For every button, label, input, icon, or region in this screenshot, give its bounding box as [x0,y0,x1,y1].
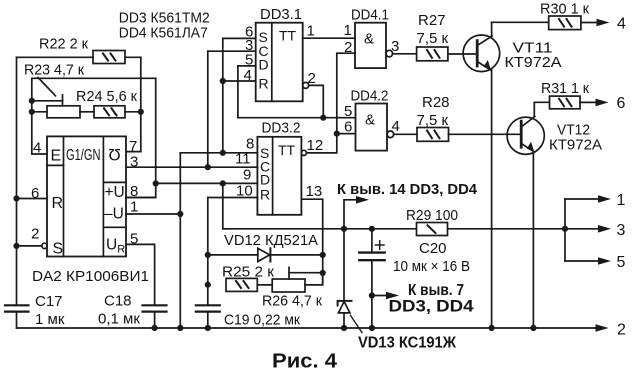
resistor R29 [417,223,448,236]
wiper tick [62,95,64,106]
svg-text:–U: –U [104,206,124,223]
output arrow 4 [597,19,610,27]
svg-text:Ω: Ω [108,145,120,163]
svg-text:6: 6 [344,119,352,136]
wire DD3.1 pin6 S from ground vertical [223,37,256,39]
svg-text:D: D [260,172,270,188]
svg-text:3: 3 [617,222,626,239]
flip-flop DD3.1 [256,23,303,102]
svg-text:S: S [53,241,64,258]
node R25 junction [205,282,211,288]
svg-text:R24 5,6 к: R24 5,6 к [76,88,137,105]
node junction with S-line of DD3.2 [220,150,226,156]
svg-text:DD4.1: DD4.1 [351,7,389,24]
node pin6 junction on left rail [13,195,19,201]
node C20 ground junction [369,325,375,331]
wire set/reset ground vertical (upper) [222,38,224,153]
svg-text:7,5 к: 7,5 к [417,112,449,129]
svg-text:R28: R28 [422,94,450,111]
diode VD12 [208,248,323,261]
svg-text:1 мк: 1 мк [35,311,65,328]
svg-text:1: 1 [344,22,352,39]
node output branch junction [562,226,568,232]
svg-text:VD12 КД521А: VD12 КД521А [224,232,318,249]
svg-text:9: 9 [243,167,251,184]
node D-line junction with +rail vertical [220,180,226,186]
output arrow 2 [596,324,609,332]
svg-text:&: & [364,31,374,48]
svg-text:C19 0,22 мк: C19 0,22 мк [224,312,300,329]
svg-text:R: R [259,76,269,92]
node pin14 branch junction [341,226,347,232]
svg-text:R26 4,7 к: R26 4,7 к [262,293,322,310]
wire wiper to left vertical [32,100,63,102]
capacitor C17 [5,305,29,328]
wire DD3.2 pin8 S line from -U [180,152,257,154]
svg-text:12: 12 [307,137,324,154]
wire DD3.1 pin2 Q-bar [303,82,324,117]
wire DD3.1 pin4 R [223,80,256,82]
svg-text:D: D [259,57,269,73]
svg-text:C18: C18 [104,293,132,310]
svg-text:5: 5 [344,103,352,120]
svg-text:UR: UR [106,237,125,256]
wire DD3.1 pin3 C from DA2 output [208,50,256,52]
wiper arrow diagonal [38,78,56,96]
svg-text:2: 2 [617,322,626,339]
svg-text:6: 6 [31,185,39,202]
svg-text:1: 1 [130,199,138,216]
pin 3 wire (DA2 output line) [126,166,257,168]
svg-text:10: 10 [236,183,253,200]
resistor R25 [226,278,272,291]
svg-text:3: 3 [130,154,138,171]
svg-text:R29 100: R29 100 [406,207,458,224]
wire VT12 collector to R31 [534,101,549,103]
resistor R23 (trimmer) [32,78,94,118]
pin 7 wire [126,151,141,153]
svg-text:ТТ: ТТ [279,28,297,44]
node -U ground junction [177,325,183,331]
wire DD3.1 pin5 D feedback [238,65,256,67]
wire DD3.2 pin13 output [301,199,322,285]
svg-text:DD4 К561ЛА7: DD4 К561ЛА7 [119,25,208,42]
svg-text:DD3.1: DD3.1 [260,6,302,23]
svg-text:E: E [51,148,62,165]
capacitor C19 [196,305,220,328]
wire DD4.2 pin6 entry [337,133,356,135]
pin 5 wire (UR) to C18 [126,244,155,305]
wire output 1 [565,198,599,200]
svg-text:DD3, DD4: DD3, DD4 [389,297,475,316]
wire arrow to pin14 power [344,196,369,229]
output arrow 5 [598,257,611,265]
flip-flop DD3.2 [257,137,301,215]
svg-text:5: 5 [245,52,253,69]
svg-text:13: 13 [306,183,323,200]
svg-text:7: 7 [129,138,137,155]
wire +rail vertical (lower segment) to main line [223,183,229,228]
resistor R31 [550,96,597,109]
node pin12/pin6 junction [334,131,340,137]
svg-text:7,5 к: 7,5 к [417,30,449,47]
svg-text:5: 5 [617,254,626,271]
resistor R24 [94,106,141,118]
wire R24 right lead [125,111,141,113]
svg-text:1: 1 [307,23,315,40]
transistor VT12 [507,102,544,328]
capacitor C18 [143,305,167,328]
svg-text:0,1 мк: 0,1 мк [98,311,140,328]
pin 1 wire (-U) [126,213,180,215]
node junction R24-right on vertical [138,109,144,115]
svg-text:DA2 КР1006ВИ1: DA2 КР1006ВИ1 [32,268,149,285]
node VD13 ground junction [341,325,347,331]
node VD12 cathode junction [320,252,326,258]
wire DD3.1 pin1 Q to DD4.1 [303,37,355,39]
svg-text:R: R [52,195,64,212]
wire DD3.2 R net vertical to VD12/C19 [207,198,209,306]
wire +rail main line to outputs [223,228,599,230]
node C20 bottom junction [369,292,375,298]
wire arrow to pin7 ground [372,292,399,300]
svg-text:DD3.2: DD3.2 [262,120,301,137]
svg-text:ТТ: ТТ [278,142,296,158]
capacitor C20 electrolytic [359,229,384,296]
svg-text:4: 4 [392,118,400,135]
gate DD4.1 [355,23,393,68]
wire -U ground vertical [179,153,181,328]
svg-text:5: 5 [130,231,138,248]
node VD12 anode junction [205,252,211,258]
svg-text:4: 4 [244,67,252,84]
output arrow 6 [596,99,609,107]
resistor R22 [17,51,141,64]
node VT12 emitter ground junction [530,325,536,331]
wire R23-R24 link [80,111,94,113]
node pin2 junction on left rail [13,243,19,249]
svg-text:КТ972А: КТ972А [549,137,602,154]
svg-text:11: 11 [235,151,251,168]
svg-text:+U: +U [105,184,125,201]
svg-text:G1/GN: G1/GN [66,147,101,164]
wire left rail (R,S,C17) [16,57,18,305]
svg-text:3: 3 [391,38,399,55]
wire output branch vertical [564,199,566,261]
wire E-net left vertical down to pin 4 [32,78,47,154]
op-amp DA2 timer block [47,136,126,256]
wire DA2 pin3 vertical to DD3.1 C [207,51,209,167]
svg-text:2: 2 [344,39,352,56]
node DA2 output junction [205,164,211,170]
svg-text:C17: C17 [35,293,63,310]
svg-text:DD4.2: DD4.2 [351,88,389,105]
wire DD4.1 output to R27 [393,53,417,55]
svg-text:VD13 КС191Ж: VD13 КС191Ж [358,335,456,352]
wire vertical R22/R24 to DA2 pin7 [140,57,142,151]
svg-text:1: 1 [617,192,626,209]
svg-text:К выв. 14 DD3, DD4: К выв. 14 DD3, DD4 [337,181,478,198]
gate DD4.2 [356,104,394,151]
svg-text:R25 2 к: R25 2 к [222,264,274,281]
svg-text:КТ972А: КТ972А [505,54,562,71]
node DD3.1 R junction [220,78,226,84]
output arrow 3 [598,225,611,233]
wire DD3.2 pin9 D line (+U) [156,182,258,184]
wire output 5 [565,260,599,262]
node R23 wiper junction [29,98,35,104]
wire DD3.2 pin12 output [301,53,355,155]
node R23 left junction [29,109,35,115]
resistor R30 [549,16,598,30]
svg-text:Рис. 4: Рис. 4 [272,350,338,373]
wire R23 left lead [32,111,47,113]
node pin2 feedback junction [320,115,326,121]
pin 6 wire into R [17,198,48,200]
wire E-net top horizontal to +U vertical [32,77,156,79]
wire C20 bottom to ground rail [371,296,373,329]
resistor R27 [417,47,478,61]
pin 2 wire into S with inversion circle [17,243,48,248]
svg-text:C20: C20 [419,240,447,257]
output arrow 1 [598,195,611,203]
svg-text:6: 6 [617,95,626,112]
wire ground bottom rail [17,327,597,329]
svg-text:R23 4,7 к: R23 4,7 к [24,62,84,79]
wire R22 right lead to vertical [125,56,141,58]
svg-text:R31 1 к: R31 1 к [541,80,589,97]
svg-text:R22 2 к: R22 2 к [39,36,88,53]
wire +U net vertical [126,78,156,197]
svg-text:8: 8 [130,183,138,200]
svg-text:4: 4 [617,16,626,33]
svg-text:&: & [365,112,375,129]
transistor VT11 [463,22,500,328]
node VT11 emitter ground junction [489,325,495,331]
wire DD3.1 D feedback vertical and line to DD4.2 pin5 [238,66,356,118]
svg-text:R30 1 к: R30 1 к [540,1,589,18]
node C20 top junction [369,226,375,232]
wire VT11 collector to R30 [492,21,549,23]
svg-text:R: R [260,187,270,203]
node C19 ground junction [205,325,211,331]
wire DD3.2 pin10 R entry [208,197,258,199]
resistor R28 [417,128,521,142]
wire DD4.2 output to R28 [394,133,417,135]
node -U junction [177,211,183,217]
node C18 ground junction [152,325,158,331]
zener diode VD13 [338,229,362,333]
wire R22 left lead [17,56,94,58]
node R26 wiper junction [320,270,326,276]
pin 8 wire (+U) [126,197,156,199]
node +U / D-line junction [153,180,159,186]
svg-text:4: 4 [33,140,41,157]
svg-text:2: 2 [308,70,316,87]
svg-text:10 мк × 16 В: 10 мк × 16 В [393,258,470,275]
resistor R26 (trimmer rheostat) [272,267,323,292]
svg-text:R27: R27 [418,12,446,29]
svg-text:2: 2 [31,226,39,243]
